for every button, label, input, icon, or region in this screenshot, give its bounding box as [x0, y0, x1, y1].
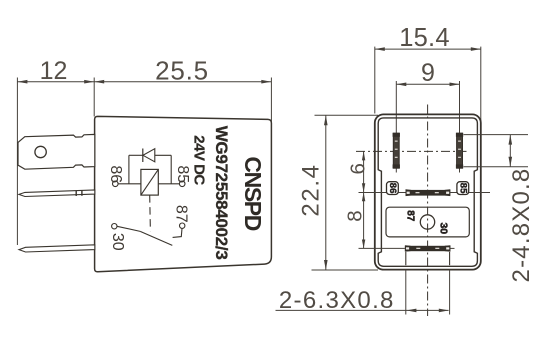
svg-text:86: 86	[107, 165, 124, 183]
center circle 30 terminal boss	[420, 215, 434, 229]
svg-text:CNSPD: CNSPD	[240, 156, 266, 230]
slot 30 (bottom horizontal)	[405, 245, 451, 252]
dimension 22.4 arrow bottom	[324, 260, 328, 270]
body outer outline	[375, 114, 481, 269]
svg-text:15.4: 15.4	[399, 24, 449, 52]
wire coil to 85	[158, 183, 179, 185]
diode branch top wire left	[129, 154, 143, 156]
dimension 25.5 right extension line	[270, 78, 272, 124]
dimension 25.5 line	[94, 81, 271, 83]
wire 86 to coil	[118, 183, 141, 185]
svg-text:9: 9	[421, 59, 435, 87]
dimension 2-6.3 leader	[276, 309, 449, 311]
dimension 8 arrow top	[362, 192, 365, 201]
terminal blade 30 (wide, with hole)	[18, 134, 95, 169]
dimension 6 arrow top	[362, 151, 365, 160]
dimension 2-6.3 extension left	[405, 270, 407, 315]
line through bottom slot to right wall	[450, 247, 454, 249]
blade crimp tick 2	[81, 190, 83, 195]
terminal circle 85	[179, 181, 185, 187]
line through top slot to right wall	[450, 192, 490, 194]
svg-text:2-4.8X0.8: 2-4.8X0.8	[508, 168, 535, 283]
dimension 2-6.3 extension right	[449, 270, 451, 315]
dimension 2-6.3 arrow left	[406, 309, 416, 313]
recess wall left of bottom slot	[405, 252, 407, 265]
svg-text:22.4: 22.4	[298, 163, 325, 216]
dimension 2-6.3 arrow right	[439, 309, 449, 313]
dimension 9 arrow left	[396, 83, 406, 87]
dimension 22.4 line	[325, 115, 327, 270]
terminal blade (bottom thin)	[19, 245, 95, 252]
svg-text:85: 85	[457, 183, 468, 194]
circuit: terminal circle 86	[113, 181, 119, 187]
dimension 15.4 arrow right	[471, 47, 481, 51]
dimension 8 arrow bottom	[362, 240, 365, 249]
dimension 12 extension line left	[16, 78, 18, 246]
dimension 15.4 line	[375, 48, 481, 50]
dimension 22.4 arrow top	[324, 115, 328, 125]
svg-text:8: 8	[343, 210, 366, 221]
blade crimp tick 1	[75, 191, 77, 196]
dimension 25.5 arrow right	[261, 80, 271, 84]
svg-text:6: 6	[347, 163, 370, 174]
dimension 12/25.5 shared extension line	[93, 78, 95, 117]
dimension 9 extension right (through slot)	[459, 81, 461, 173]
dimension 22.4 extension top	[315, 114, 379, 116]
coil diagonal	[141, 169, 158, 195]
svg-text:12: 12	[40, 57, 68, 85]
dimension 9 extension left (through slot)	[395, 81, 397, 173]
recess wall right of bottom slot	[449, 252, 451, 265]
contact 87 bracket	[173, 228, 182, 237]
svg-text:WG9725584002/3: WG9725584002/3	[212, 126, 231, 260]
svg-text:24V DC: 24V DC	[190, 135, 207, 185]
centerline horizontal (dash-dot)	[356, 150, 467, 152]
coil K (rect with diagonal)	[141, 169, 158, 195]
svg-text:86: 86	[387, 183, 398, 194]
dimension 2-4.8 extension top	[464, 134, 529, 136]
coil slot 85 (vertical, hatched)	[456, 133, 463, 169]
dimension 2-4.8 line	[509, 135, 511, 167]
terminal circle 87	[180, 223, 185, 228]
emblem 86	[387, 182, 399, 195]
emblem 85	[457, 182, 469, 195]
dimension 22.4 extension bottom	[312, 269, 379, 271]
dimension 9 arrow right	[450, 83, 460, 87]
blade hole	[35, 146, 46, 157]
svg-text:30: 30	[437, 222, 449, 234]
dimension 12 arrow left	[17, 80, 27, 84]
recess panel	[386, 207, 469, 237]
extension line for 8-dim at bottom slot	[359, 247, 405, 249]
relay body outline	[95, 116, 272, 271]
dimension 12 line	[17, 81, 94, 83]
diode cathode bar	[142, 149, 144, 163]
diode branch right leg	[170, 155, 172, 184]
svg-text:2-6.3X0.8: 2-6.3X0.8	[279, 287, 395, 314]
wire 30 to pivot	[117, 226, 140, 231]
dimension 6 arrow bottom	[362, 183, 365, 192]
centerline vertical (dash-dot)	[427, 105, 429, 317]
svg-text:87: 87	[404, 210, 415, 222]
dashed actuation line	[149, 195, 152, 231]
dimension 6/8 line	[363, 151, 365, 248]
dimension 15.4 arrow left	[375, 47, 385, 51]
terminal blade (middle thin)	[19, 190, 95, 197]
svg-text:87: 87	[172, 205, 189, 223]
diode branch top wire right	[155, 154, 171, 156]
diode branch left leg	[128, 155, 130, 184]
svg-text:30: 30	[109, 233, 126, 251]
dimension 2-4.8 arrow bottom	[509, 157, 513, 167]
dimension 15.4 extension right	[480, 47, 482, 132]
svg-text:25.5: 25.5	[155, 56, 209, 86]
dimension 25.5 arrow left	[94, 80, 104, 84]
terminal circle 30	[112, 224, 117, 229]
extension line for 8-dim at top slot	[359, 192, 406, 194]
diode D1 triangle	[143, 149, 155, 162]
dimension 9 line	[396, 83, 459, 85]
slot 87a (top horizontal)	[406, 189, 451, 196]
dimension 2-4.8 extension bottom	[464, 166, 529, 168]
coil slot 86 (vertical, hatched)	[393, 133, 400, 169]
dimension 2-4.8 arrow top	[509, 135, 513, 145]
switch blade	[140, 231, 172, 245]
dimension 15.4 extension left	[374, 47, 376, 114]
dimension 12 arrow right	[84, 80, 94, 84]
body inner outline	[378, 118, 477, 266]
